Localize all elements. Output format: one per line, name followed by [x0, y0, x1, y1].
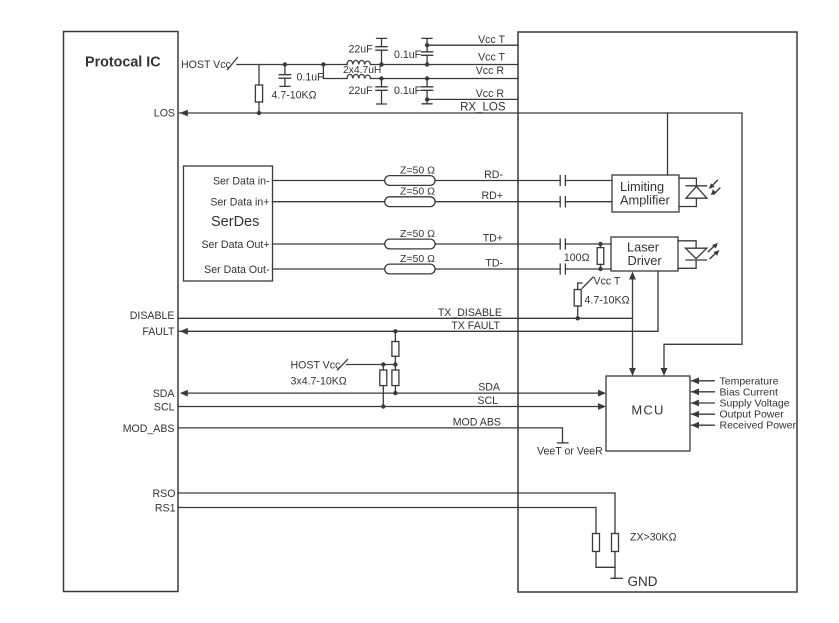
arrow TX FAULT into IC: [180, 328, 188, 335]
svg-text:22uF: 22uF: [349, 85, 374, 97]
svg-text:0.1uF: 0.1uF: [394, 49, 422, 61]
svg-text:RS1: RS1: [155, 502, 176, 514]
svg-text:MOD_ABS: MOD_ABS: [123, 423, 175, 435]
wire TX_DISABLE: [178, 276, 633, 373]
svg-text:0.1uF: 0.1uF: [394, 85, 422, 97]
inductor L1b 2x4.7uH (bottom): [347, 74, 370, 78]
svg-text:0.1uF: 0.1uF: [297, 72, 325, 84]
transmission line Z=50 (RD-): [385, 176, 435, 186]
wire TX FAULT: [180, 271, 659, 331]
svg-text:HOST Vcc: HOST Vcc: [181, 59, 232, 71]
arrow into MCU top (from RX_LOS): [661, 368, 668, 376]
HOST Vcc power flag (middle): [338, 360, 348, 371]
HOST Vcc power flag (top): [228, 58, 238, 70]
svg-text:TD-: TD-: [485, 258, 503, 270]
arrow into laser driver bottom: [629, 272, 636, 280]
Protocal IC U1 box: [64, 32, 179, 592]
svg-text:Z=50 Ω: Z=50 Ω: [400, 165, 435, 177]
resistor R8 (RS1): [593, 534, 600, 552]
svg-text:Vcc T: Vcc T: [594, 276, 621, 288]
coupling capacitor (TD+): [560, 239, 565, 249]
svg-text:SDA: SDA: [478, 382, 501, 394]
resistor R3 4.7-10K pullup to Vcc T: [577, 306, 579, 318]
transmission line Z=50 (TD-): [385, 264, 435, 274]
ground VeeT or VeeR: [558, 442, 569, 444]
svg-text:Bias Current: Bias Current: [720, 386, 778, 398]
svg-text:MOD ABS: MOD ABS: [453, 416, 501, 428]
capacitor C3 0.1uF (top right): [422, 38, 433, 64]
Vcc T power flag: [582, 277, 593, 288]
svg-text:Vcc R: Vcc R: [476, 88, 505, 100]
svg-text:RX_LOS: RX_LOS: [460, 102, 506, 114]
transmission line Z=50 (TD+): [385, 239, 435, 249]
svg-text:TD+: TD+: [483, 233, 503, 245]
svg-text:Supply Voltage: Supply Voltage: [720, 398, 790, 410]
svg-text:RD-: RD-: [484, 169, 503, 181]
svg-text:DISABLE: DISABLE: [130, 310, 175, 322]
wire SDA: [188, 392, 598, 394]
svg-text:LOS: LOS: [154, 108, 175, 120]
svg-text:Vcc T: Vcc T: [478, 52, 505, 64]
svg-text:Vcc T: Vcc T: [478, 34, 505, 46]
laser driver U4 box: [611, 237, 678, 271]
resistor R4 pullup TX FAULT: [394, 331, 396, 341]
wire RX_LOS / LOS net: [180, 113, 743, 373]
wire RS1: [178, 508, 596, 534]
wire MOD_ABS: [178, 428, 563, 443]
svg-text:3x4.7-10KΩ: 3x4.7-10KΩ: [291, 375, 347, 387]
ground GND: [611, 577, 622, 579]
svg-text:100Ω: 100Ω: [564, 252, 590, 264]
MCU U5 box: [606, 376, 690, 451]
svg-text:Driver: Driver: [628, 253, 663, 268]
coupling capacitor (RD+): [560, 197, 565, 207]
svg-text:VeeT or VeeR: VeeT or VeeR: [537, 446, 603, 458]
svg-text:Z=50 Ω: Z=50 Ω: [400, 253, 435, 265]
wire limiting amp LOS up: [667, 113, 669, 175]
svg-text:4.7-10KΩ: 4.7-10KΩ: [272, 90, 317, 102]
wire RSO: [178, 493, 615, 534]
svg-text:Vcc R: Vcc R: [476, 65, 505, 77]
svg-text:MCU: MCU: [631, 403, 664, 418]
wire Vcc T line 1: [427, 44, 518, 46]
svg-text:Ser Data in-: Ser Data in-: [213, 176, 270, 188]
arrow SCL into MCU: [598, 403, 606, 410]
module boundary box: [518, 32, 797, 592]
svg-text:2x4.7uH: 2x4.7uH: [343, 65, 381, 76]
svg-text:SDA: SDA: [153, 388, 176, 400]
svg-text:Protocal IC: Protocal IC: [85, 55, 160, 71]
svg-text:Z=50 Ω: Z=50 Ω: [400, 186, 435, 198]
wire Ser Data in- / RD-: [273, 180, 613, 182]
resistor R1 4.7-10K pull (top left): [258, 65, 260, 86]
svg-text:4.7-10KΩ: 4.7-10KΩ: [585, 295, 630, 307]
resistor R7 (RSO): [612, 534, 619, 552]
node junction dots top network: [257, 43, 430, 115]
arrow into MCU top (TX_DISABLE net): [629, 368, 636, 376]
svg-text:RD+: RD+: [482, 190, 504, 202]
svg-text:HOST Vcc: HOST Vcc: [291, 359, 342, 371]
resistor R6 pullup SDA: [394, 365, 396, 371]
arrow SDA into MCU: [598, 390, 606, 397]
resistor R2 100 ohm: [600, 244, 602, 248]
svg-text:ZX>30KΩ: ZX>30KΩ: [630, 532, 677, 544]
svg-text:Ser Data Out-: Ser Data Out-: [204, 264, 270, 276]
svg-text:SCL: SCL: [154, 402, 175, 414]
inductor L1a 2x4.7uH (top): [347, 60, 370, 64]
wire Vcc R line 2: [427, 98, 518, 100]
svg-text:GND: GND: [628, 574, 658, 589]
svg-text:SCL: SCL: [477, 395, 498, 407]
wire HOST Vcc to pullups: [347, 364, 396, 366]
wire Ser Data Out- / TD-: [273, 268, 612, 270]
resistor R5 pullup SCL: [382, 365, 384, 371]
light ray arrows into photodiode: [712, 180, 718, 186]
svg-text:Amplifier: Amplifier: [620, 193, 671, 208]
capacitor C2 22uF (top): [376, 38, 387, 64]
coupling capacitor (TD-): [560, 264, 565, 274]
coupling capacitor (RD-): [560, 176, 565, 186]
svg-text:22uF: 22uF: [349, 44, 374, 56]
svg-text:SerDes: SerDes: [211, 214, 259, 230]
svg-text:Ser Data in+: Ser Data in+: [210, 197, 269, 209]
SerDes U2 box: [184, 166, 273, 281]
node dots HOST Vcc pullups: [381, 362, 398, 408]
photodiode D1: [679, 178, 707, 206]
svg-text:Received Power: Received Power: [720, 420, 797, 432]
capacitor C4 22uF (bottom): [376, 79, 387, 105]
arrow LOS into IC: [180, 110, 188, 117]
wire SCL: [178, 406, 598, 408]
light ray arrows out of laser: [708, 246, 714, 252]
wire Vcc R rail branch: [323, 65, 518, 79]
wire Ser Data in+ / RD+: [273, 201, 613, 203]
svg-text:TX FAULT: TX FAULT: [451, 320, 500, 332]
MCU input arrows right side: [692, 380, 715, 382]
svg-text:Ser Data Out+: Ser Data Out+: [201, 239, 269, 251]
op-amp U3 Limiting Amplifier box: [612, 175, 679, 212]
svg-text:Z=50 Ω: Z=50 Ω: [400, 228, 435, 240]
svg-text:RSO: RSO: [153, 488, 176, 500]
capacitor C1 0.1uF (left): [279, 65, 290, 87]
svg-text:TX_DISABLE: TX_DISABLE: [438, 307, 502, 319]
arrow SDA into IC: [180, 390, 188, 397]
wire HOST Vcc rail: [237, 64, 518, 66]
wire Ser Data Out+ / TD+: [273, 243, 612, 245]
transmission line Z=50 (RD+): [385, 197, 435, 207]
svg-text:FAULT: FAULT: [142, 326, 175, 338]
laser diode D2: [678, 241, 707, 268]
capacitor C5 0.1uF (bottom right): [422, 79, 433, 104]
